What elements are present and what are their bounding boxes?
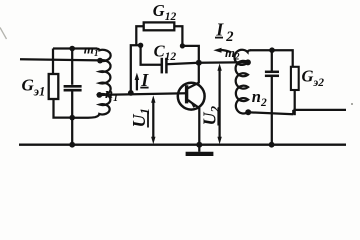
resistor G12	[144, 22, 175, 30]
node m2 tap	[245, 59, 251, 65]
wire feedback left vertical	[131, 45, 141, 93]
conductance G32 (Gэ2)	[291, 67, 299, 90]
wire n2 output line	[248, 110, 346, 115]
wire emitter vertical to rail	[198, 108, 200, 145]
arrow current I into base	[136, 78, 138, 91]
scan speck top-left	[0, 28, 7, 40]
node left tank bottom junction	[69, 115, 75, 121]
node G12/C12 left junction	[138, 43, 143, 48]
ground	[198, 145, 200, 152]
capacitor C12	[161, 58, 164, 74]
inductor L1 with taps m1 and n1	[72, 49, 110, 118]
node m1 tap	[97, 58, 103, 64]
scan speck right edge	[351, 103, 353, 105]
arrow voltage U2 double-headed	[218, 68, 220, 141]
wire from G12 right corner to collector node	[182, 46, 198, 63]
transistor VT1 (PNP)	[178, 83, 205, 110]
arrow current I2	[220, 50, 232, 52]
wire G12 right lead	[174, 26, 182, 46]
node collector junction	[196, 60, 202, 66]
node cap1 top junction	[69, 46, 75, 52]
node feedback joins base line	[128, 90, 134, 96]
wire left rail to tap m1	[20, 59, 100, 60]
wire left tank top	[53, 47, 97, 49]
node emitter on rail	[196, 142, 202, 148]
inductor L2 with taps m2 and n2	[234, 50, 250, 114]
capacitor C1 of left tank	[71, 49, 73, 85]
node n1 tap	[97, 92, 103, 98]
node cap2 bottom on rail	[269, 142, 275, 148]
label U1 rotated with underline	[129, 108, 152, 128]
arrow voltage U1 double-headed	[152, 100, 154, 140]
node n2 tap	[245, 109, 251, 115]
node cap2 top junction	[269, 47, 275, 53]
capacitor C2 of right tank	[271, 50, 273, 71]
wire right tank top	[250, 50, 293, 67]
wire bottom rail	[19, 144, 346, 146]
wire C12 right lead and m2 line	[166, 62, 247, 64]
label U2 rotated with underline	[200, 106, 223, 126]
wire collector vertical	[198, 63, 200, 83]
conductance G31 (Gэ1)	[52, 49, 54, 75]
wire base line from n1 to transistor	[99, 93, 186, 95]
node cap1 bottom on rail	[69, 142, 75, 148]
wire C12 left branch	[141, 45, 162, 64]
node G12 right corner	[180, 43, 185, 48]
wire G12 left lead	[136, 26, 143, 45]
